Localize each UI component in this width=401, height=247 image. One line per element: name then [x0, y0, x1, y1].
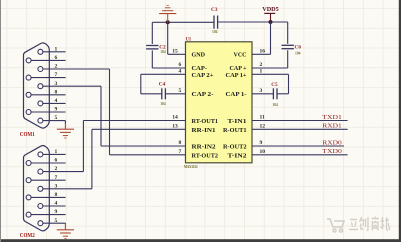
- node junction at ground rail: [166, 20, 170, 24]
- COM2 pin 8 stub: [31, 196, 66, 198]
- svg-text:RT-OUT2: RT-OUT2: [192, 152, 219, 159]
- svg-text:7: 7: [55, 175, 58, 181]
- wire top rail to C3: [168, 21, 214, 23]
- capacitor C5: [273, 88, 277, 99]
- svg-text:C5: C5: [271, 82, 278, 88]
- wire to C5: [277, 93, 289, 95]
- wire top rail left segment: [152, 21, 167, 23]
- svg-text:11: 11: [260, 115, 265, 121]
- COM2 pin 6 circle: [26, 161, 31, 166]
- svg-text:1: 1: [55, 149, 58, 155]
- COM2 pin 5 stub: [43, 222, 66, 224]
- COM1 pin 1 stub: [43, 51, 66, 53]
- svg-text:R-OUT2: R-OUT2: [223, 144, 247, 151]
- COM2 pin 9 stub: [31, 214, 66, 216]
- COM1 pin 5 stub: [43, 120, 66, 122]
- wire pin 14 RT-OUT1 to COM2 pin2 riser: [83, 120, 185, 122]
- ground: [57, 224, 74, 238]
- capacitor C4: [162, 88, 166, 99]
- COM2 pin 7 circle: [26, 178, 31, 183]
- svg-text:9: 9: [55, 107, 58, 113]
- wire pin 2 CAP+: [252, 67, 288, 69]
- svg-text:T-IN2: T-IN2: [228, 152, 248, 159]
- svg-text:16: 16: [260, 48, 266, 54]
- COM2 pin 1 stub: [43, 153, 66, 155]
- COM1 pin 6 circle: [26, 58, 31, 63]
- svg-text:104: 104: [272, 103, 278, 107]
- svg-text:9: 9: [55, 209, 58, 215]
- wire pin 8 RR-IN2 to COM1 pin3 riser: [101, 145, 186, 147]
- op-amp U1 (RS-232 transceiver IC body): [186, 42, 253, 163]
- connector COM2 shell: [24, 146, 50, 231]
- wire pin 4 CAP 2+: [141, 73, 186, 75]
- svg-text:C4: C4: [159, 82, 166, 88]
- ground: [57, 124, 74, 138]
- COM1 pin 2 stub: [43, 68, 66, 70]
- svg-text:2: 2: [260, 62, 263, 68]
- wire COM2 pin 3 to riser: [66, 188, 92, 190]
- wire pin 1 CAP 1+: [252, 73, 289, 75]
- wire pin 15 GND: [168, 53, 186, 55]
- svg-text:13: 13: [172, 123, 178, 129]
- wire pin 13 RR-IN1 to COM2 pin3 riser: [92, 128, 186, 130]
- node junction at VDD5: [269, 20, 273, 24]
- svg-text:1: 1: [260, 68, 263, 74]
- svg-text:3: 3: [55, 81, 58, 87]
- COM1 pin 9 circle: [26, 110, 31, 115]
- svg-text:10: 10: [260, 149, 266, 155]
- svg-text:3: 3: [55, 183, 58, 189]
- wire COM2 pin 2 to riser: [66, 171, 84, 173]
- svg-text:C3: C3: [211, 7, 218, 13]
- COM1 pin 3 circle: [38, 84, 43, 89]
- svg-text:COM2: COM2: [20, 233, 35, 239]
- COM2 pin 8 circle: [26, 195, 31, 200]
- wire pin 11 to TXD1: [252, 120, 348, 122]
- svg-text:7: 7: [179, 149, 182, 155]
- svg-text:TXD0: TXD0: [322, 148, 342, 155]
- COM2 pin 2 stub: [43, 171, 66, 173]
- COM1 pin 8 stub: [31, 94, 66, 96]
- wire C2 to pin 6 CAP-: [151, 50, 153, 68]
- wire C5 to pin 3 CAP 1-: [252, 93, 273, 95]
- COM1 pin 5 circle: [38, 118, 43, 123]
- COM2 pin 3 circle: [38, 186, 43, 191]
- watermark LCSC logo: [327, 219, 344, 232]
- capacitor C2: [146, 46, 158, 49]
- svg-text:VDD5: VDD5: [262, 6, 279, 13]
- svg-text:14: 14: [172, 115, 178, 121]
- wire riser COM2 pin3: [91, 129, 93, 189]
- svg-text:1: 1: [55, 46, 58, 52]
- wire GND pin drop: [167, 22, 169, 54]
- COM2 pin 2 circle: [38, 169, 43, 174]
- window border left: [0, 0, 1, 242]
- svg-text:VCC: VCC: [234, 52, 247, 59]
- window border right: [399, 0, 401, 242]
- svg-text:5: 5: [179, 88, 182, 94]
- window border bottom: [0, 239, 401, 242]
- wire COM1 pin 5 to ground: [64, 121, 66, 124]
- svg-text:8: 8: [179, 140, 182, 146]
- svg-text:8: 8: [55, 89, 58, 95]
- COM2 pin 9 circle: [26, 212, 31, 217]
- svg-text:2: 2: [55, 166, 58, 172]
- svg-text:C6: C6: [295, 44, 302, 50]
- svg-text:RXD0: RXD0: [322, 139, 342, 146]
- svg-text:RR-IN1: RR-IN1: [192, 127, 216, 134]
- COM2 pin 4 stub: [43, 205, 66, 207]
- COM1 pin 1 circle: [38, 49, 43, 54]
- wire top rail VDD5 node to C6 corner: [271, 21, 288, 23]
- svg-text:104: 104: [160, 50, 166, 54]
- capacitor C3: [214, 16, 218, 29]
- wire pin 7 RT-OUT2 to COM1 pin2 riser: [110, 154, 186, 156]
- COM1 pin 7 circle: [26, 75, 31, 80]
- svg-text:4: 4: [55, 201, 58, 207]
- wire C4 to pin 5 CAP 2-: [165, 93, 185, 95]
- svg-text:4: 4: [179, 68, 182, 74]
- ground: [159, 5, 176, 22]
- svg-text:MAX3232: MAX3232: [184, 165, 198, 169]
- wire CAP 1+ drop: [288, 74, 290, 94]
- connector COM1 shell: [24, 43, 50, 128]
- svg-text:GND: GND: [192, 52, 206, 59]
- svg-text:8: 8: [55, 192, 58, 198]
- svg-text:15: 15: [172, 48, 178, 54]
- COM2 pin 4 circle: [38, 204, 43, 209]
- svg-text:9: 9: [260, 140, 263, 146]
- wire C6 to pin 2 CAP+: [287, 50, 289, 68]
- svg-text:CAP 1+: CAP 1+: [226, 72, 247, 79]
- wire pin 12 to RXD1: [252, 128, 348, 130]
- svg-text:R-OUT1: R-OUT1: [223, 127, 247, 134]
- wire COM1 pin 2 to riser: [66, 68, 110, 70]
- wire riser COM2 pin2: [82, 121, 84, 172]
- COM1 pin 3 stub: [43, 85, 66, 87]
- COM1 pin 6 stub: [31, 59, 66, 61]
- wire to C4: [141, 93, 162, 95]
- COM2 pin 5 circle: [38, 221, 43, 226]
- svg-text:6: 6: [179, 62, 182, 68]
- svg-text:RR-IN2: RR-IN2: [192, 144, 217, 151]
- wire C6 top drop: [287, 22, 289, 44]
- COM1 pin 9 stub: [31, 111, 66, 113]
- COM2 pin 7 stub: [31, 179, 66, 181]
- svg-text:4: 4: [55, 98, 58, 104]
- wire top rail down to C2: [151, 22, 153, 44]
- COM1 pin 4 stub: [43, 102, 66, 104]
- COM1 pin 8 circle: [26, 92, 31, 97]
- power VDD5: [264, 13, 275, 22]
- svg-text:104: 104: [212, 30, 218, 34]
- svg-text:6: 6: [55, 55, 58, 61]
- svg-text:RXD1: RXD1: [322, 123, 342, 130]
- COM1 pin 2 circle: [38, 67, 43, 72]
- wire riser COM1 pin3: [100, 86, 102, 146]
- wire CAP 2+ drop: [140, 74, 142, 94]
- svg-text:5: 5: [55, 218, 58, 224]
- svg-text:3: 3: [260, 88, 263, 94]
- svg-text:2: 2: [55, 64, 58, 70]
- COM2 pin 1 circle: [38, 152, 43, 157]
- svg-text:TXD1: TXD1: [322, 114, 342, 121]
- svg-text:CAP 2+: CAP 2+: [192, 72, 214, 79]
- svg-text:U1: U1: [186, 37, 192, 42]
- capacitor C6: [282, 45, 294, 48]
- watermark text 立创商城: [349, 217, 390, 231]
- COM1 pin 7 stub: [31, 77, 66, 79]
- wire COM1 pin 3 to riser: [66, 85, 101, 87]
- wire pin 10 to TXD0: [252, 154, 348, 156]
- wire top rail C3 to VDD5 node: [218, 21, 271, 23]
- COM2 pin 6 stub: [31, 162, 66, 164]
- COM1 pin 4 circle: [38, 101, 43, 106]
- svg-text:CAP 1-: CAP 1-: [226, 91, 247, 98]
- svg-text:RT-OUT1: RT-OUT1: [192, 118, 219, 125]
- svg-text:104: 104: [295, 51, 301, 55]
- svg-text:6: 6: [55, 158, 58, 164]
- svg-text:104: 104: [160, 102, 166, 106]
- wire VDD5 to pin 16 VCC: [270, 22, 272, 54]
- svg-text:12: 12: [260, 123, 266, 129]
- wire COM2 pin 5 to ground: [64, 223, 66, 224]
- svg-text:7: 7: [55, 72, 58, 78]
- wire riser COM1 pin2: [109, 69, 111, 155]
- svg-text:COM1: COM1: [20, 132, 35, 138]
- wire pin 9 to RXD0: [252, 145, 344, 147]
- svg-text:T-IN1: T-IN1: [228, 118, 247, 125]
- COM2 pin 3 stub: [43, 188, 66, 190]
- svg-text:5: 5: [55, 115, 58, 121]
- svg-text:CAP 2-: CAP 2-: [192, 91, 214, 98]
